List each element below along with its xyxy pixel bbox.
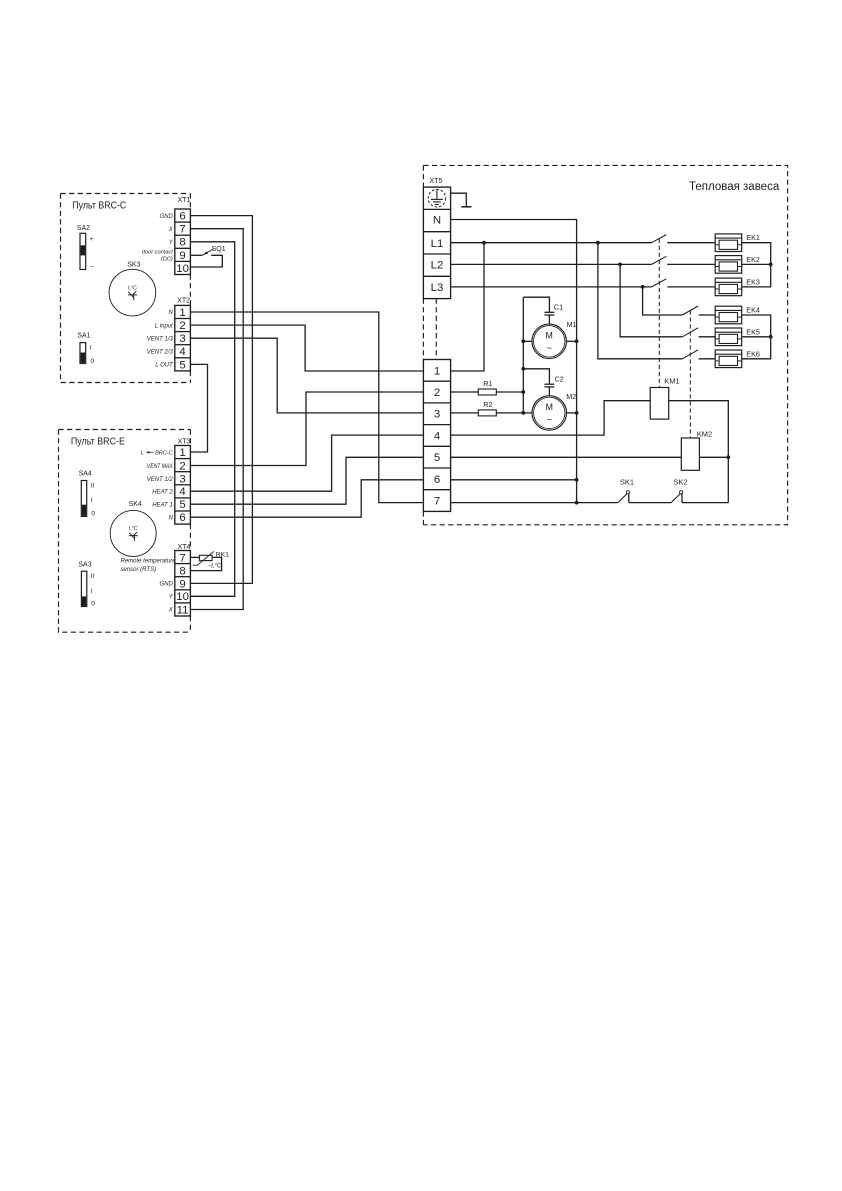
svg-text:VENT 1/3: VENT 1/3 [147,336,174,342]
wire terminal 6 to N [451,479,577,481]
R2 label [483,400,492,409]
svg-text:C2: C2 [555,374,564,383]
M2 label [566,392,576,401]
svg-text:2: 2 [179,460,185,472]
chassis ground symbol [461,206,471,208]
panel box "Пульт BRC-C" (dashed enclosure) [61,194,191,383]
panel title "Пульт BRC-E" [71,435,125,447]
svg-text:KM1: KM1 [664,377,679,386]
svg-text:SK3: SK3 [127,262,140,269]
svg-text:5: 5 [179,499,185,511]
terminal block XT2 (pins 1-5) [175,305,191,371]
svg-text:XT4: XT4 [178,544,191,551]
XT4 label [178,544,191,551]
junction bus/M1 left [521,339,525,343]
svg-text:M: M [546,330,553,340]
svg-text:5: 5 [434,452,440,464]
wire terminal 7 to thermal cutout SK1 [423,502,617,504]
panel title "Пульт BRC-C" [72,200,126,212]
svg-text:4: 4 [434,430,440,442]
svg-text:0: 0 [91,600,95,607]
svg-text:Пульт BRC-E: Пульт BRC-E [71,435,125,447]
SQ1 label with leader arrow [204,246,226,255]
junction N/M1 [575,339,579,343]
svg-text:VENT MAX: VENT MAX [147,464,174,470]
svg-text:RK1: RK1 [216,552,229,559]
wire L1 phase [451,242,652,244]
svg-text:8: 8 [179,566,185,578]
wire N: XT5-N down the curtain [451,220,577,503]
KM2 contact in EK4 line [682,306,715,315]
wire Y net: XT1-8 to XT4-10 [190,242,234,597]
terminal block XT1 (pins 6-10) [175,209,191,275]
wire terminal 4 to contactor KM1 coil [451,401,651,435]
svg-text:7: 7 [434,495,440,507]
svg-text:HEAT 1: HEAT 1 [152,503,173,509]
wire L OUT net: XT2-5 to XT3-1 [190,364,207,452]
terminal strip continuation (dashed link XT5 to 1-7) [435,299,437,360]
svg-text:XT2: XT2 [177,298,190,305]
EK4 label [746,306,760,315]
svg-text:VENT 1/2: VENT 1/2 [147,477,174,483]
heater EK6 [715,350,742,368]
svg-text:SK1: SK1 [620,478,634,487]
wire KM2 coil return [699,456,728,458]
EK5 label [746,327,760,336]
svg-text:8: 8 [179,237,185,249]
KM2 contact in EK6 line [682,350,715,359]
svg-text:N: N [433,215,441,227]
svg-text:EK5: EK5 [746,327,760,336]
junction N/M2 [575,411,579,415]
EK6 label [746,349,760,358]
svg-text:BRC-C: BRC-C [155,450,174,456]
terminal block XT5 (PE, N, L1, L2, L3) [423,187,450,299]
junction bus/R2-M2 [521,411,525,415]
thermostat SK4 (room sensor dial) [110,501,156,556]
thermal cutout SK1 [618,491,630,503]
junction KM1/KM2 return [726,455,730,459]
EK1 label [746,233,760,242]
svg-text:GND: GND [159,214,173,220]
svg-text:7: 7 [179,552,185,564]
XT4 pin labels GND Y X [159,582,173,614]
thermal cutout SK2 [671,491,683,503]
wire KM1 coil return [669,401,729,503]
XT1 pin labels GND X Y door-contact [142,214,174,263]
svg-text:SA1: SA1 [77,332,90,339]
junction bus/R1 [521,390,525,394]
XT1 pin numbers 6-10 [176,211,189,275]
svg-text:SQ1: SQ1 [212,246,226,253]
switch SA2 (slider, +/- positions) [77,225,94,271]
svg-text:M2: M2 [566,392,576,401]
svg-text:HEAT 2: HEAT 2 [152,490,173,496]
wire L3 feed to EK4 contact [643,287,683,315]
svg-text:t,°C: t,°C [128,285,137,291]
svg-text:3: 3 [434,409,440,421]
wire SK2 to KM coils return [682,502,728,504]
motor M1 (fan motor) [532,324,567,359]
junction L1/terminal-1 riser [482,241,486,245]
svg-text:SK2: SK2 [673,478,687,487]
svg-text:R1: R1 [483,379,492,388]
wire HEAT 1 net: XT3-5 to terminal 5 of heat curtain [190,457,423,504]
svg-text:10: 10 [176,591,189,603]
switch SA4 (slider, II/I/0 positions) [79,470,96,517]
svg-text:XT3: XT3 [178,438,191,445]
svg-text:9: 9 [179,578,185,590]
svg-text:L3: L3 [431,282,444,294]
svg-text:Тепловая завеса: Тепловая завеса [689,181,780,193]
wire EK1-EK3 star point [742,243,771,287]
capacitor C2 (motor M2 run cap) [523,369,554,396]
wire VENT 1/3 net: XT2-3 to terminal 3 of heat curtain [190,338,423,413]
svg-text:L: L [141,450,144,456]
XT3 pin labels [141,450,174,521]
junction L3/EK4 feed [641,285,645,289]
svg-text:L1: L1 [431,238,444,250]
svg-text:~: ~ [546,343,552,354]
svg-text:EK3: EK3 [746,277,760,286]
label "Remote temperature sensor (RTS)" [121,559,177,573]
wire L3 phase [451,286,652,288]
XT1 label [178,197,191,204]
wire N net: XT2-1 to terminal 7 of heat curtain [190,312,423,503]
svg-text:~: ~ [546,415,552,426]
SK1 label [620,478,634,487]
junction L2/EK5 feed [618,263,622,267]
junction EK star upper [769,263,773,267]
junction N/terminal 7 wire [575,501,579,505]
svg-text:II: II [91,483,95,490]
wire L-input net: XT2-2 to terminal 1 of heat curtain [190,325,423,371]
svg-text:N: N [168,310,173,316]
svg-text:6: 6 [434,474,440,486]
svg-text:M1: M1 [567,320,577,329]
wire motor bus node [522,297,524,413]
svg-text:3: 3 [179,333,185,345]
wire HEAT 2 net: XT3-4 to terminal 4 of heat curtain [190,435,423,491]
wire M1 left lead [523,340,532,342]
junction L1/EK6 feed [596,241,600,245]
terminal numbers 1-7 [434,365,440,507]
svg-text:L input: L input [155,323,173,329]
svg-text:M: M [546,402,553,412]
svg-text:t,°C: t,°C [129,526,138,532]
svg-text:4: 4 [179,346,185,358]
svg-text:EK2: EK2 [746,255,760,264]
EK2 label [746,255,760,264]
svg-text:1: 1 [434,365,440,377]
RK1 value label -t°C [208,564,222,570]
wire M2 left lead [523,412,532,414]
wire M1 right lead to N [566,340,576,342]
junction EK star lower [769,335,773,339]
svg-text:L2: L2 [431,260,444,272]
heater EK5 [715,328,742,346]
KM1 contact in L3 line [652,279,716,287]
svg-text:(DC): (DC) [161,256,173,262]
svg-text:SA2: SA2 [77,225,90,232]
heater EK3 [715,278,742,296]
svg-text:11: 11 [177,604,189,616]
EK3 label [746,277,760,286]
junction bus/C2 branch [521,367,525,371]
svg-text:2: 2 [434,387,440,399]
svg-text:Remote temperature: Remote temperature [121,559,177,565]
svg-text:C1: C1 [554,302,563,311]
terminal block XT3 (pins 1-6) [175,446,191,525]
svg-text:SK4: SK4 [129,501,142,508]
svg-text:XT5: XT5 [430,178,443,185]
svg-text:XT1: XT1 [178,197,191,204]
svg-text:I: I [91,588,93,595]
XT2 label [177,298,190,305]
title "Тепловая завеса" [689,181,780,193]
XT5 terminal letters N L1 L2 L3 [431,215,444,294]
svg-text:II: II [91,573,95,580]
XT2 pin numbers 1-5 [179,307,185,371]
resistor R2 (terminal 3 to motor bus) [451,410,524,416]
svg-text:6: 6 [179,211,185,223]
KM1 contact in L2 line [652,256,716,264]
KM2 linkage (dashed) [689,310,691,438]
junction N/terminal 6 [575,478,579,482]
svg-text:R2: R2 [483,400,492,409]
XT5 label [430,178,443,185]
terminal block 1-7 of heat curtain [423,360,450,512]
XT3 label [178,438,191,445]
C2 label [555,374,564,383]
KM1 linkage (dashed) [658,239,660,388]
KM2 contact in EK5 line [682,328,715,337]
svg-text:KM2: KM2 [697,430,712,439]
wire N net: XT3-6 to terminal 6 of heat curtain [190,480,423,517]
KM1 label [664,377,679,386]
svg-text:10: 10 [176,263,189,275]
XT4 pin numbers 7-11 [176,552,189,616]
wire L2 phase [451,263,652,265]
svg-text:L OUT: L OUT [155,363,174,369]
wire EK4-EK6 star point [742,315,771,359]
svg-text:door contact: door contact [142,249,173,255]
motor M2 (fan motor) [532,396,567,431]
wire X net: XT1-7 to XT4-11 [190,229,243,610]
svg-text:0: 0 [91,358,95,365]
svg-text:3: 3 [179,473,185,485]
wire GND net: XT1-6 to XT4-9 [190,216,252,584]
svg-text:GND: GND [159,582,173,588]
svg-text:I: I [90,345,92,352]
C1 label [554,302,563,311]
heater EK1 [715,234,742,252]
svg-text:EK4: EK4 [746,306,760,315]
wire terminal 5 to contactor KM2 coil [451,456,682,458]
switch SA1 (slider, I/0 positions) [77,332,94,365]
svg-text:EK6: EK6 [746,349,760,358]
wire SK1 to SK2 [629,502,671,504]
switch SA3 (slider, II/I/0 positions) [78,561,95,607]
svg-text:+: + [90,236,94,243]
svg-text:5: 5 [179,359,185,371]
contactor coil KM1 [650,388,669,420]
panel box "Пульт BRC-E" (dashed enclosure) [59,430,191,633]
capacitor C1 (motor M1 run cap) [523,297,554,324]
svg-text:EK1: EK1 [746,233,760,242]
thermostat SK3 (room sensor dial) [109,262,156,316]
XT3 pin numbers 1-6 [179,447,185,524]
svg-text:4: 4 [179,486,185,498]
KM2 label [697,430,712,439]
heater EK4 [715,306,742,324]
wire VENT MAX net: XT3-2 to terminal 2 of heat curtain [190,392,423,466]
heater EK2 [715,256,742,274]
svg-text:1: 1 [179,447,185,459]
KM1 contact in L1 line [652,235,716,243]
equipment box "Тепловая завеса" (dashed enclosure) [423,165,787,524]
svg-text:SA3: SA3 [78,561,91,568]
door switch SQ1 between XT1-9 and XT1-10 [190,249,222,267]
SK2 label [673,478,687,487]
XT2 pin labels N L-input VENT [147,310,174,368]
wire terminal1 riser to L1 [451,243,484,371]
svg-text:−t,°C: −t,°C [208,564,222,570]
svg-text:9: 9 [179,250,185,262]
svg-text:sensor (RTS): sensor (RTS) [121,567,157,573]
svg-text:SA4: SA4 [79,470,92,477]
wire L2 feed to EK5 contact [620,264,682,336]
RK1 label [216,552,229,559]
thermistor RK1 between XT4-7 and XT4-8 [190,551,221,570]
contactor coil KM2 [681,438,699,470]
wire L1 feed to EK6 contact [598,243,682,359]
resistor R1 (terminal 2 to motor bus) [451,389,524,395]
svg-text:1: 1 [179,307,185,319]
M1 label [567,320,577,329]
svg-text:N: N [168,516,173,522]
R1 label [483,379,492,388]
PE earth terminal symbol (dashed circle with earth) [428,189,446,207]
svg-text:6: 6 [179,512,185,524]
wire PE to chassis ground [451,193,467,207]
wire M2 right lead to N [567,412,577,414]
svg-text:VENT 2/3: VENT 2/3 [147,349,174,355]
svg-text:7: 7 [179,224,185,236]
svg-text:2: 2 [179,320,185,332]
svg-text:0: 0 [91,511,95,518]
terminal block XT4 (pins 7-11) [175,551,191,617]
svg-text:I: I [91,497,93,504]
svg-text:−: − [90,264,94,271]
svg-text:Пульт BRC-C: Пульт BRC-C [72,200,126,212]
